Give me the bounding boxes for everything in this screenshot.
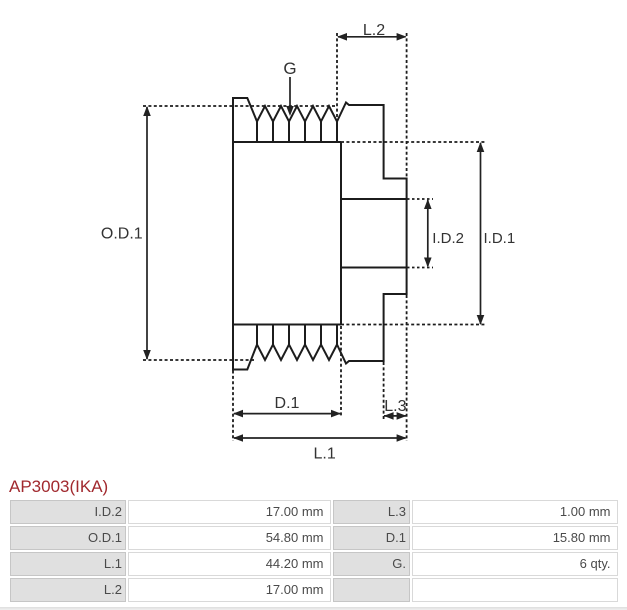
arrow G [286,77,294,116]
part number title [9,477,108,497]
svg-text:L.2: L.2 [363,22,385,39]
bottom divider band [0,607,627,610]
table row 3 [10,552,126,576]
extension dashes L.2 left [336,33,338,122]
extension dashes L.3 left [383,362,385,419]
extension dashes O.D. top [143,105,337,107]
dimension I.D.1 [477,142,485,325]
table row 1 [10,500,126,524]
extension dashes I.D.1 top [341,141,486,143]
svg-text:I.D.1: I.D.1 [484,230,516,247]
table row 2 [10,526,126,550]
table row 4 [10,578,126,602]
dimension I.D.2 [424,199,432,268]
extension dashes I.D.1 bottom [341,324,486,326]
dimension D.1 [233,410,341,418]
groove slots top [257,122,337,143]
groove base line bottom [233,324,341,326]
pulley technical drawing [0,0,627,468]
svg-text:G: G [283,59,296,78]
dimension L.3 [384,412,407,420]
extension dashes L.2/L.1 right upper [406,33,408,179]
extension dashes L.1 right lower [406,295,408,441]
dimension O.D.1 [143,106,151,360]
extension dashes O.D. bottom [143,359,255,361]
svg-text:D.1: D.1 [275,395,300,412]
extension dots I.D.2 top [407,198,433,200]
svg-text:L.1: L.1 [313,446,335,463]
bore line bottom I.D.2 [341,267,407,269]
extension dashes D.1 right [340,326,342,416]
hub left edge [340,142,342,325]
svg-text:L.3: L.3 [384,398,406,415]
svg-text:O.D.1: O.D.1 [101,226,143,243]
dimension L.2 [337,33,407,41]
dimension L.1 [233,434,407,442]
bore line top I.D.2 [341,198,407,200]
groove slots bottom [257,325,337,345]
extension dashes L.1/D.1 left [232,371,234,442]
pulley body outline [233,98,407,370]
groove base line top [233,141,341,143]
svg-text:I.D.2: I.D.2 [432,230,464,247]
extension dots I.D.2 bottom [407,267,433,269]
